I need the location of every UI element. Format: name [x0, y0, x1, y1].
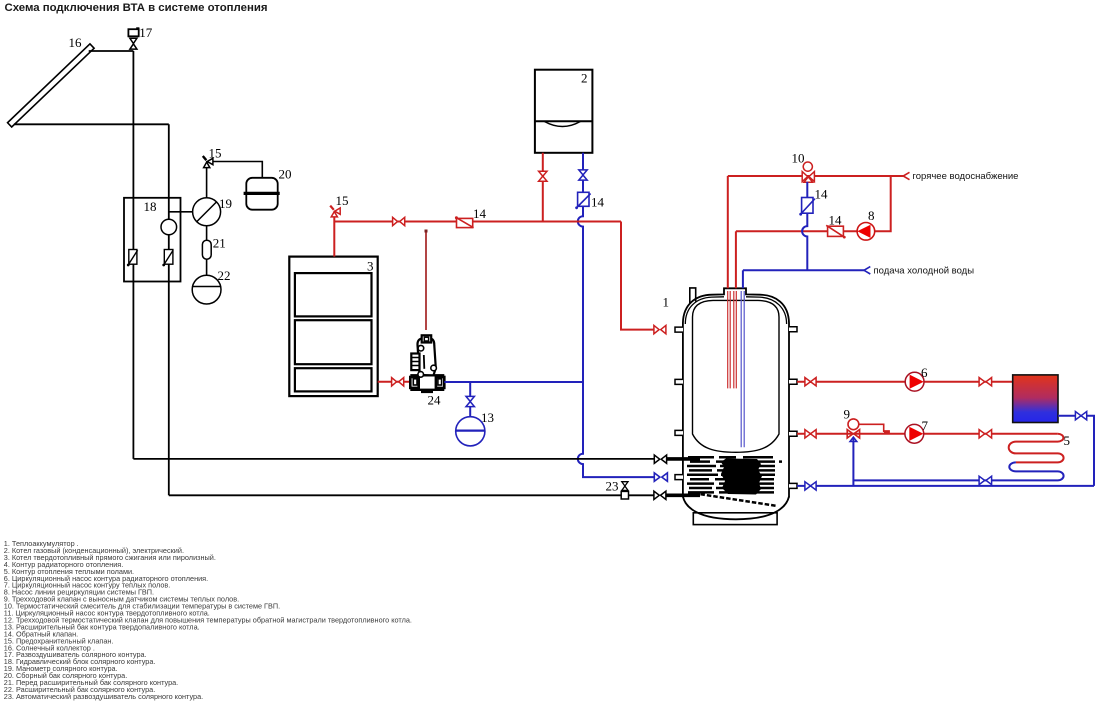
coil diagonal outlet	[694, 493, 776, 506]
solar return line from coil	[666, 493, 700, 497]
svg-text:8: 8	[868, 208, 875, 223]
valve blue under boiler 2	[579, 170, 587, 180]
solid fuel boiler 3	[289, 257, 377, 397]
sensor line of loading unit	[425, 231, 427, 330]
wire blue cold drop into tank	[742, 270, 744, 288]
svg-text:23. Автоматический развоздушив: 23. Автоматический развоздушиватель соля…	[4, 692, 203, 701]
svg-text:17: 17	[139, 25, 153, 40]
wire blue bypass of valve 9	[852, 437, 854, 486]
pump 7	[905, 424, 924, 443]
tank right port top	[789, 379, 797, 384]
pump 8	[857, 223, 875, 241]
coil dense middle	[721, 459, 762, 495]
radiator return blue	[1058, 416, 1094, 486]
valve blue tank left	[654, 473, 667, 481]
floor heating serpentine 5 red part	[1009, 434, 1064, 463]
svg-text:14: 14	[815, 187, 829, 202]
valve red tank right top	[805, 378, 816, 386]
wire red drop A to tank	[727, 176, 729, 288]
svg-text:21: 21	[213, 236, 226, 251]
valve red before loading unit	[392, 378, 404, 386]
main return line	[797, 485, 1094, 487]
wire red boiler 3 outlet	[378, 381, 411, 383]
air vent 23	[621, 482, 628, 499]
svg-text:23: 23	[606, 479, 619, 494]
tank left stub empty 1	[675, 379, 683, 384]
tank right stub empty	[789, 327, 797, 332]
radiator circuit feed	[797, 381, 1013, 383]
wire block to manometer	[169, 211, 193, 213]
tank right port mid	[789, 431, 797, 436]
svg-text:1: 1	[663, 294, 670, 309]
valve red tank top-left	[654, 325, 666, 333]
pipes inside tank blue	[741, 291, 744, 447]
wire red riser boiler 3	[333, 216, 335, 257]
wire red drop from boiler 2	[542, 153, 544, 222]
tank left port blue	[675, 475, 683, 480]
svg-text:20: 20	[279, 167, 292, 182]
svg-text:9: 9	[844, 407, 851, 422]
svg-text:10: 10	[792, 151, 805, 166]
svg-text:16: 16	[69, 35, 83, 50]
svg-text:13: 13	[481, 410, 494, 425]
svg-text:5: 5	[1064, 433, 1071, 448]
legend	[4, 539, 412, 701]
tank right port bottom	[789, 483, 797, 488]
wire safety valve to tank 20	[213, 162, 262, 178]
svg-text:Схема подключения ВТА в систем: Схема подключения ВТА в системе отоплени…	[5, 2, 268, 14]
wire solar hot riser down	[132, 51, 134, 459]
svg-text:14: 14	[829, 213, 843, 228]
wire 21 to expansion tank 22	[206, 259, 208, 275]
pipes inside tank red	[728, 291, 737, 388]
svg-text:24: 24	[428, 393, 442, 408]
safety valve 15 solar	[203, 156, 213, 168]
tank 1 inner vessel	[693, 300, 780, 452]
check valve 14 under boiler 2	[575, 192, 590, 209]
wire collector bottom line	[14, 123, 169, 125]
valve (flow meter) left in block 18	[127, 250, 138, 267]
tank left stub empty 2	[675, 430, 683, 435]
three-way valve 9	[847, 419, 859, 442]
wire red main line y221	[334, 221, 621, 223]
svg-text:6: 6	[921, 365, 928, 380]
wire solar return riser down	[168, 124, 170, 495]
floor heating serpentine 5 blue part	[853, 462, 1063, 480]
svg-text:подача холодной воды: подача холодной воды	[874, 266, 975, 277]
wire blue from loading unit to riser	[444, 381, 583, 383]
pump of block 18	[161, 219, 177, 235]
wire manometer to pre-tank 21	[206, 226, 208, 240]
valve blue serpentine return	[979, 476, 992, 484]
wire blue drop from boiler 2	[578, 153, 654, 477]
valve (flow meter) right in block 18	[162, 250, 173, 267]
wire red to tank top-left port	[621, 222, 654, 330]
check valve 14 red recirc	[826, 225, 845, 238]
valve red tank right mid	[805, 430, 816, 438]
wire manometer up to safety valve	[206, 168, 208, 198]
svg-text:19: 19	[219, 196, 232, 211]
wire to tank 13	[469, 407, 471, 418]
solar supply line into coil	[667, 457, 700, 461]
coil heat exchanger	[687, 457, 782, 492]
check valve 14 blue vertical	[799, 198, 815, 216]
cold water arrow	[864, 267, 870, 274]
storage tank 1 body	[683, 288, 789, 525]
expansion tank 13	[456, 417, 485, 446]
valve blue tank right bottom	[805, 482, 816, 490]
valve red under boiler 2	[539, 171, 547, 181]
svg-text:7: 7	[922, 418, 929, 433]
floor circuit feed	[797, 433, 1058, 435]
expansion tank 22	[192, 275, 221, 304]
valve blue above tank 13	[466, 396, 474, 406]
loading unit 24	[410, 335, 444, 393]
cold water line blue	[743, 269, 864, 271]
svg-text:18: 18	[144, 199, 157, 214]
svg-text:15: 15	[336, 193, 349, 208]
wire red DHW return corner	[736, 176, 891, 231]
solar collector 16	[8, 44, 95, 127]
valve red before floor coil	[979, 430, 992, 438]
svg-text:2: 2	[581, 71, 588, 86]
wire blue drop to expansion tank 13	[469, 382, 471, 396]
valve red before radiator	[979, 378, 992, 386]
wire collector top to vent corner	[89, 50, 134, 52]
wire solar hot line to tank	[133, 458, 654, 460]
svg-text:3: 3	[367, 259, 374, 274]
svg-text:14: 14	[591, 195, 605, 210]
sensor capillary of 9	[859, 424, 890, 431]
hot water arrow	[903, 172, 909, 179]
hot water line red	[728, 175, 904, 177]
air vent 17	[128, 28, 139, 49]
wire red drop B to tank	[735, 231, 737, 288]
pre expansion tank 21	[202, 240, 211, 259]
wire solar return line to tank	[169, 494, 654, 496]
collecting tank 20	[244, 178, 280, 210]
valve blue after radiator	[1075, 412, 1086, 420]
wire blue from mixer down	[802, 182, 807, 270]
pump 6	[905, 372, 924, 391]
manometer 19	[193, 198, 221, 226]
svg-text:14: 14	[473, 206, 487, 221]
check valve 14 red main	[455, 216, 474, 228]
thermostatic mixer 10	[802, 162, 814, 182]
tank left port red (stub)	[675, 327, 683, 332]
safety valve 15 boiler 3	[330, 206, 340, 217]
valve red on main line	[393, 217, 405, 225]
svg-text:горячее водоснабжение: горячее водоснабжение	[913, 171, 1019, 182]
gas boiler 2	[535, 70, 593, 153]
valve black solar top	[654, 455, 666, 463]
svg-text:15: 15	[209, 146, 222, 161]
valve black solar bottom	[654, 491, 666, 499]
svg-text:22: 22	[218, 268, 231, 283]
hydraulic block 18	[124, 198, 181, 282]
